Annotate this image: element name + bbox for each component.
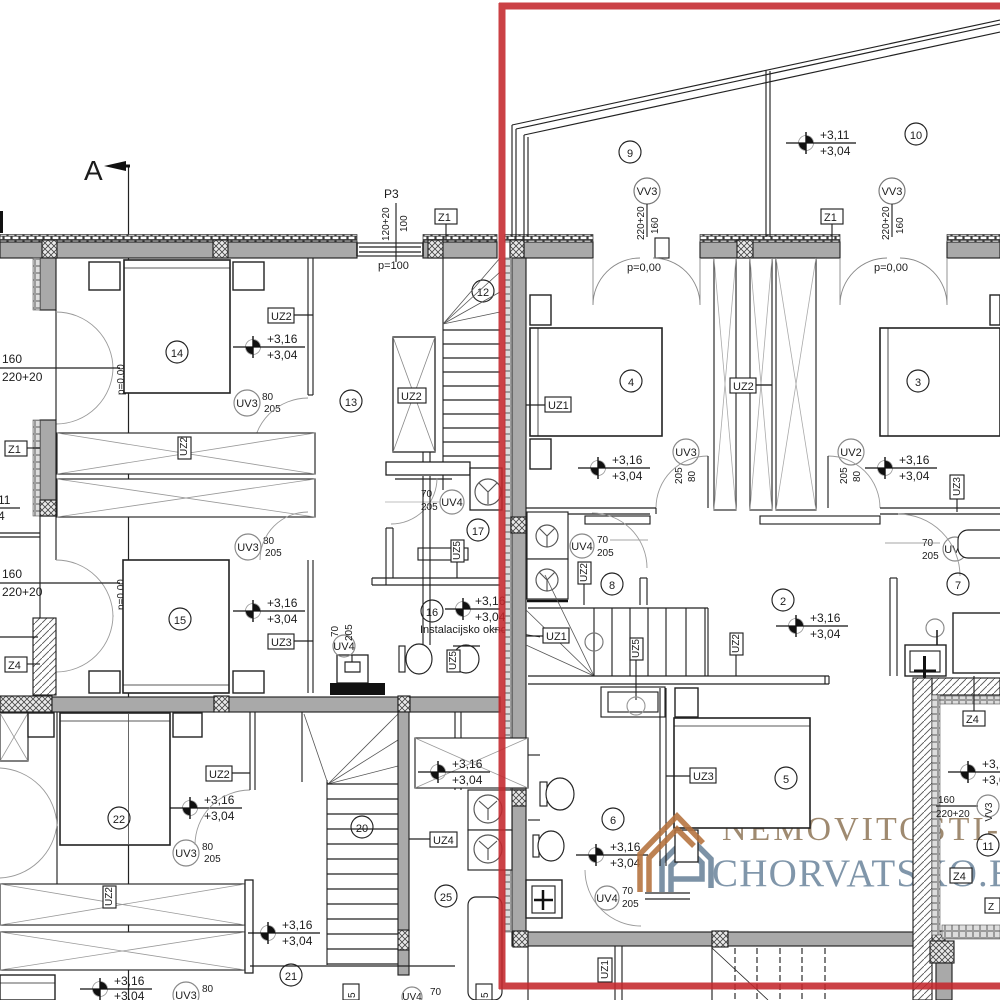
tall shaft with X next to stair xyxy=(393,337,435,452)
svg-text:12: 12 xyxy=(477,287,489,299)
washbasin xyxy=(526,880,562,918)
door UV3 room13 xyxy=(234,390,260,416)
right wall of room 14 xyxy=(307,258,309,395)
STAIR right unit xyxy=(526,575,829,715)
svg-text:UV3: UV3 xyxy=(175,848,196,860)
svg-text:+3,16: +3,16 xyxy=(267,596,298,610)
room circle 9 xyxy=(619,141,641,163)
vanity shelf room 17 xyxy=(418,548,468,560)
svg-text:Z1: Z1 xyxy=(8,444,21,456)
svg-text:205: 205 xyxy=(622,899,639,910)
svg-text:UZ3: UZ3 xyxy=(952,477,963,496)
room circle 14 xyxy=(166,341,188,363)
corner label box at left edge xyxy=(0,211,3,233)
level mark room13 xyxy=(246,336,261,358)
level mark bottom left xyxy=(93,978,108,1000)
thin wall below (terrace edge) xyxy=(39,516,41,618)
Z1 box top left-unit xyxy=(435,209,457,240)
corridor wall left unit xyxy=(423,452,430,645)
sink block with black fill xyxy=(337,655,368,683)
svg-text:205: 205 xyxy=(922,551,939,562)
toilets xyxy=(528,755,574,861)
svg-text:80: 80 xyxy=(263,536,275,547)
beam over bath xyxy=(386,462,470,475)
LOWER LEFT UNIT room 22 xyxy=(0,712,255,1000)
svg-text:5: 5 xyxy=(480,992,491,998)
door arcs balcony left xyxy=(56,312,113,424)
level mark xyxy=(246,600,261,622)
fan counter box xyxy=(470,468,502,510)
ROOM 15 xyxy=(89,512,313,693)
room circle 13 xyxy=(340,390,362,412)
red frame left xyxy=(499,3,506,989)
closet shelves under walls xyxy=(585,516,650,524)
glazing X panel 1 xyxy=(714,258,736,510)
svg-text:10: 10 xyxy=(910,130,922,142)
UV3 door label bottom xyxy=(173,982,199,1000)
svg-text:+3,16: +3,16 xyxy=(612,453,643,467)
svg-text:70: 70 xyxy=(430,987,442,998)
svg-text:UZ5: UZ5 xyxy=(631,639,642,658)
terrace roof diagonal lines xyxy=(512,20,1000,237)
risers vertical xyxy=(593,608,595,676)
bottom small labels xyxy=(343,984,359,1000)
svg-text:Z: Z xyxy=(988,902,994,913)
svg-text:UZ5: UZ5 xyxy=(452,541,463,560)
svg-text:25: 25 xyxy=(440,892,452,904)
Z1 label xyxy=(5,441,27,456)
svg-text:160: 160 xyxy=(938,795,955,806)
glazing X panel 3 xyxy=(776,258,816,510)
svg-text:UV4: UV4 xyxy=(402,992,422,1000)
svg-text:160: 160 xyxy=(2,567,22,581)
risers horizontal xyxy=(327,783,398,785)
UZ3 label xyxy=(690,768,716,783)
room circle 2 xyxy=(772,589,794,611)
svg-text:+3,04: +3,04 xyxy=(267,348,298,362)
bed room 3 xyxy=(880,328,1000,436)
room circle 21 xyxy=(280,964,302,986)
lower walls below band xyxy=(527,946,529,1000)
glazing X panel 2 xyxy=(750,258,772,510)
wardrobe bands bottom xyxy=(0,884,245,925)
red frame top xyxy=(499,3,1000,10)
svg-text:+3,1: +3,1 xyxy=(982,757,1000,771)
P3 label xyxy=(378,187,410,272)
REDFRAME xyxy=(499,3,1000,989)
partition right of 22 xyxy=(249,712,251,790)
level mark xyxy=(589,844,604,866)
section line A vertical xyxy=(128,166,130,1000)
svg-text:17: 17 xyxy=(472,526,484,538)
level mark +3,11 terrace xyxy=(786,128,856,158)
risers xyxy=(443,329,500,331)
svg-text:UZ2: UZ2 xyxy=(579,563,590,582)
svg-text:+3,16: +3,16 xyxy=(452,757,483,771)
svg-text:4: 4 xyxy=(0,509,5,523)
svg-text:80: 80 xyxy=(262,392,274,403)
svg-text:VV3: VV3 xyxy=(984,802,995,821)
UZ5 vertical label xyxy=(451,540,464,562)
VV3 label left xyxy=(634,178,661,240)
BOTTOM RIGHT BATH room 11 xyxy=(913,676,1000,1000)
svg-text:9: 9 xyxy=(627,148,633,160)
ROOM 14 xyxy=(89,258,313,453)
room circle 20 xyxy=(351,816,373,838)
top wall band gray left xyxy=(0,242,357,258)
small horizontals at left edge xyxy=(0,532,40,534)
svg-text:UV4: UV4 xyxy=(441,497,462,509)
Z1 box right unit top xyxy=(821,209,843,240)
svg-text:100: 100 xyxy=(399,215,410,232)
svg-text:7: 7 xyxy=(955,580,961,592)
RIGHT UNIT main xyxy=(505,258,1000,932)
door arcs terrace right unit door2 xyxy=(840,258,947,305)
fan symbol xyxy=(475,479,501,505)
bed 14 xyxy=(124,260,230,393)
top wall band right section gray xyxy=(524,242,593,258)
room circle 11 xyxy=(977,834,999,856)
svg-text:Z4: Z4 xyxy=(966,714,979,726)
svg-text:70: 70 xyxy=(922,538,934,549)
Z4 label xyxy=(5,657,27,672)
wall segment mid xyxy=(40,420,56,516)
shaft next to bed xyxy=(675,688,698,717)
svg-text:VV3: VV3 xyxy=(882,186,903,198)
svg-text:205: 205 xyxy=(264,404,281,415)
corridor walls y508 xyxy=(526,507,656,509)
svg-text:+3,04: +3,04 xyxy=(612,469,643,483)
house logo blue part xyxy=(662,836,711,892)
UV3 door label xyxy=(673,439,699,465)
level mark xyxy=(183,797,198,819)
landing diagonals xyxy=(526,575,594,676)
top wall band hatch strip left xyxy=(0,235,357,243)
svg-text:p=100: p=100 xyxy=(378,260,409,272)
svg-text:3: 3 xyxy=(915,377,921,389)
svg-text:11: 11 xyxy=(982,841,993,853)
door arcs left wall xyxy=(0,768,57,878)
svg-text:UZ2: UZ2 xyxy=(209,769,230,781)
svg-text:VV3: VV3 xyxy=(637,186,658,198)
svg-text:220+20: 220+20 xyxy=(2,370,43,384)
nightstand left xyxy=(89,262,120,290)
svg-text:80: 80 xyxy=(852,470,863,482)
door UV4 to bath xyxy=(440,490,464,514)
svg-text:A: A xyxy=(84,155,103,186)
room circle 25 xyxy=(435,885,457,907)
UZ2 vertical label xyxy=(730,633,743,655)
svg-text:UZ3: UZ3 xyxy=(271,637,292,649)
svg-text:UV3: UV3 xyxy=(236,398,257,410)
svg-text:p=0,00: p=0,00 xyxy=(627,262,661,274)
svg-text:UZ5: UZ5 xyxy=(448,651,459,670)
svg-text:+3,04: +3,04 xyxy=(204,809,235,823)
VV3 label right xyxy=(879,178,906,240)
svg-text:70: 70 xyxy=(597,535,609,546)
insulation strip inside xyxy=(932,695,940,935)
svg-text:+3,11: +3,11 xyxy=(820,128,850,142)
partition right of room15 xyxy=(307,560,309,693)
bathtub xyxy=(958,530,1000,558)
stair right wall gray xyxy=(398,712,409,932)
room22 left wall line xyxy=(56,712,58,884)
svg-text:11: 11 xyxy=(0,493,11,507)
dim text 160/220+20 xyxy=(0,352,127,395)
svg-text:+3,04: +3,04 xyxy=(810,627,841,641)
room circle 6 xyxy=(602,808,624,830)
svg-text:+3,04: +3,04 xyxy=(610,856,641,870)
shower below bed xyxy=(675,830,698,862)
svg-text:220+20: 220+20 xyxy=(636,206,647,240)
UZ vertical label with drop xyxy=(630,638,643,660)
lower stair right xyxy=(712,946,825,1000)
bed 5 xyxy=(674,718,810,828)
UV3 door label xyxy=(173,840,199,866)
BATH 16/17 left unit xyxy=(330,462,540,695)
svg-text:+3,04: +3,04 xyxy=(820,144,851,158)
svg-text:UZ1: UZ1 xyxy=(548,400,569,412)
svg-text:UZ2: UZ2 xyxy=(104,887,115,906)
UZ2 label xyxy=(268,308,294,323)
small partition xyxy=(639,578,641,605)
svg-text:13: 13 xyxy=(345,397,357,409)
level mark partial xyxy=(961,761,976,783)
STAIR 20 lower left xyxy=(250,712,457,975)
LEFT EXTERIOR WALL column xyxy=(0,258,127,695)
svg-text:205: 205 xyxy=(344,624,355,641)
svg-text:+3,04: +3,04 xyxy=(267,612,298,626)
UV4 label small left xyxy=(333,635,355,657)
svg-text:Z4: Z4 xyxy=(8,660,21,672)
UV4 door label xyxy=(570,534,594,558)
ROOM 5/6 lower right unit xyxy=(526,688,810,926)
ROOM 7 bath xyxy=(601,514,1000,717)
door opening left y310-420 xyxy=(55,310,57,420)
svg-text:+3,0: +3,0 xyxy=(982,773,1000,787)
UV2 door label xyxy=(838,439,864,465)
svg-text:+3,16: +3,16 xyxy=(204,793,235,807)
svg-text:UV2: UV2 xyxy=(840,447,861,459)
window P3 in top band xyxy=(357,243,423,256)
nightstand right xyxy=(233,262,264,290)
svg-text:Z4: Z4 xyxy=(953,871,966,883)
svg-text:UZ2: UZ2 xyxy=(401,391,422,403)
svg-text:+3,04: +3,04 xyxy=(282,934,313,948)
Z4 label xyxy=(963,711,985,726)
wall left of bed5 xyxy=(659,688,661,866)
svg-text:+3,04: +3,04 xyxy=(452,773,483,787)
UZ1 label xyxy=(545,397,571,412)
room circle 8 xyxy=(601,573,623,595)
svg-text:205: 205 xyxy=(265,548,282,559)
bottom line xyxy=(250,965,455,967)
svg-text:6: 6 xyxy=(610,815,616,827)
house logo brown part xyxy=(640,816,703,892)
partition walls bath xyxy=(385,528,387,585)
svg-text:80: 80 xyxy=(687,470,698,482)
red frame bottom xyxy=(499,983,1000,990)
room circle 7 xyxy=(947,573,969,595)
svg-text:8: 8 xyxy=(609,580,615,592)
svg-text:UZ2: UZ2 xyxy=(733,381,754,393)
svg-text:+3,16: +3,16 xyxy=(810,611,841,625)
STAIR 12 top xyxy=(443,258,500,490)
svg-text:Instalacijsko okno: Instalacijsko okno xyxy=(420,624,507,636)
WARDROBE band room13 xyxy=(57,433,315,517)
UV4 door label xyxy=(943,537,967,561)
svg-text:4: 4 xyxy=(628,377,634,389)
svg-text:22: 22 xyxy=(113,814,125,826)
UV3 door label xyxy=(235,534,261,560)
fan lines xyxy=(443,258,500,324)
svg-text:2: 2 xyxy=(780,596,786,608)
svg-text:UZ2: UZ2 xyxy=(271,311,292,323)
svg-text:16: 16 xyxy=(426,607,438,619)
svg-text:20: 20 xyxy=(356,823,368,835)
svg-text:160: 160 xyxy=(650,217,661,234)
KITCHEN room 8 xyxy=(527,512,648,605)
bottom-left bed partial xyxy=(0,939,1,941)
wall segment lower with diagonal hatch xyxy=(33,618,56,695)
svg-text:15: 15 xyxy=(174,615,186,627)
level mark 16 xyxy=(456,598,471,620)
small wardrobe left xyxy=(0,713,28,761)
svg-text:+3,16: +3,16 xyxy=(282,918,313,932)
level mark 21 area xyxy=(248,918,320,948)
fan xyxy=(304,714,398,784)
UV4 door label xyxy=(595,886,619,910)
svg-text:UZ1: UZ1 xyxy=(600,960,611,979)
svg-text:Z1: Z1 xyxy=(438,212,451,224)
bed room 4 xyxy=(530,328,662,436)
svg-text:220+20: 220+20 xyxy=(936,809,970,820)
washbasin right xyxy=(453,645,479,673)
svg-text:+3,04: +3,04 xyxy=(899,469,930,483)
svg-text:5: 5 xyxy=(783,774,789,786)
door opening lower y560-618 xyxy=(56,560,113,672)
counter bed7 xyxy=(953,613,1000,673)
toilet xyxy=(399,644,432,674)
UZ3 label right xyxy=(950,475,964,499)
svg-text:+3,04: +3,04 xyxy=(114,989,145,1000)
UZ3 label xyxy=(268,634,294,649)
svg-text:UZ2: UZ2 xyxy=(731,634,742,653)
left edge level text fragment xyxy=(0,493,11,523)
svg-text:UZ4: UZ4 xyxy=(433,835,454,847)
left exterior wall of right unit xyxy=(512,258,526,932)
svg-text:UZ1: UZ1 xyxy=(546,631,567,643)
KITCHEN 25 xyxy=(343,712,528,1000)
inner room lines xyxy=(942,925,1000,939)
crosshatch piers in top band xyxy=(42,240,57,258)
svg-text:+3,16: +3,16 xyxy=(610,840,641,854)
svg-text:205: 205 xyxy=(204,854,221,865)
svg-text:220+20: 220+20 xyxy=(881,206,892,240)
bed 22 xyxy=(60,713,170,845)
svg-text:UV3: UV3 xyxy=(675,447,696,459)
svg-text:220+20: 220+20 xyxy=(2,585,43,599)
level marks row y468 xyxy=(591,457,606,479)
svg-text:120+20: 120+20 xyxy=(381,207,392,241)
svg-text:+3,16: +3,16 xyxy=(267,332,298,346)
svg-text:UV4: UV4 xyxy=(333,641,354,653)
svg-text:80: 80 xyxy=(202,984,214,995)
svg-text:70: 70 xyxy=(622,886,634,897)
room circle 17 xyxy=(467,519,489,541)
svg-text:p=0,00: p=0,00 xyxy=(874,262,908,274)
svg-text:P3: P3 xyxy=(384,187,399,201)
WATERMARK xyxy=(499,3,1000,989)
MID WALL BAND y695-712 xyxy=(0,696,500,712)
washing machine xyxy=(905,645,946,676)
counters with fans xyxy=(468,790,512,830)
svg-text:UV4: UV4 xyxy=(571,541,592,553)
svg-text:160: 160 xyxy=(2,352,22,366)
light circle xyxy=(585,633,603,651)
svg-text:5: 5 xyxy=(347,992,358,998)
UZ1 label xyxy=(543,628,569,643)
svg-text:70: 70 xyxy=(330,625,341,637)
wall segment upper xyxy=(40,258,56,310)
svg-text:205: 205 xyxy=(674,467,685,484)
UZ4 label xyxy=(430,832,457,847)
svg-text:UV3: UV3 xyxy=(175,990,196,1000)
room circle 12 xyxy=(472,280,494,302)
svg-text:Z1: Z1 xyxy=(824,212,837,224)
svg-text:205: 205 xyxy=(597,548,614,559)
svg-text:+3,16: +3,16 xyxy=(114,974,145,988)
svg-text:205: 205 xyxy=(839,467,850,484)
UZ2 label xyxy=(206,766,232,781)
svg-text:14: 14 xyxy=(171,348,183,360)
section arrow A xyxy=(84,155,130,186)
hatch walls xyxy=(913,678,932,1000)
level mark room 2 xyxy=(776,611,848,641)
svg-text:160: 160 xyxy=(895,217,906,234)
svg-text:UZ3: UZ3 xyxy=(693,771,714,783)
door arcs terrace right unit door1 xyxy=(593,258,700,305)
svg-text:+3,16: +3,16 xyxy=(899,453,930,467)
room circle 10 xyxy=(905,123,927,145)
UZ2 vertical label xyxy=(578,562,591,584)
partition wall xyxy=(889,578,891,676)
Z4 label 2 xyxy=(950,868,972,883)
UZ5 vertical label 2 xyxy=(447,650,460,672)
svg-text:UZ2: UZ2 xyxy=(179,437,190,456)
BOTTOM BAND right unit xyxy=(512,931,945,1000)
svg-text:UV3: UV3 xyxy=(237,542,258,554)
bottom-left bed partial xyxy=(0,975,55,1000)
svg-text:80: 80 xyxy=(202,842,214,853)
svg-text:21: 21 xyxy=(285,971,297,983)
UZ2 label mid xyxy=(730,378,756,393)
tall unit bottom xyxy=(468,897,502,1000)
svg-text:UV4: UV4 xyxy=(596,893,617,905)
room circle 16 xyxy=(421,600,443,622)
